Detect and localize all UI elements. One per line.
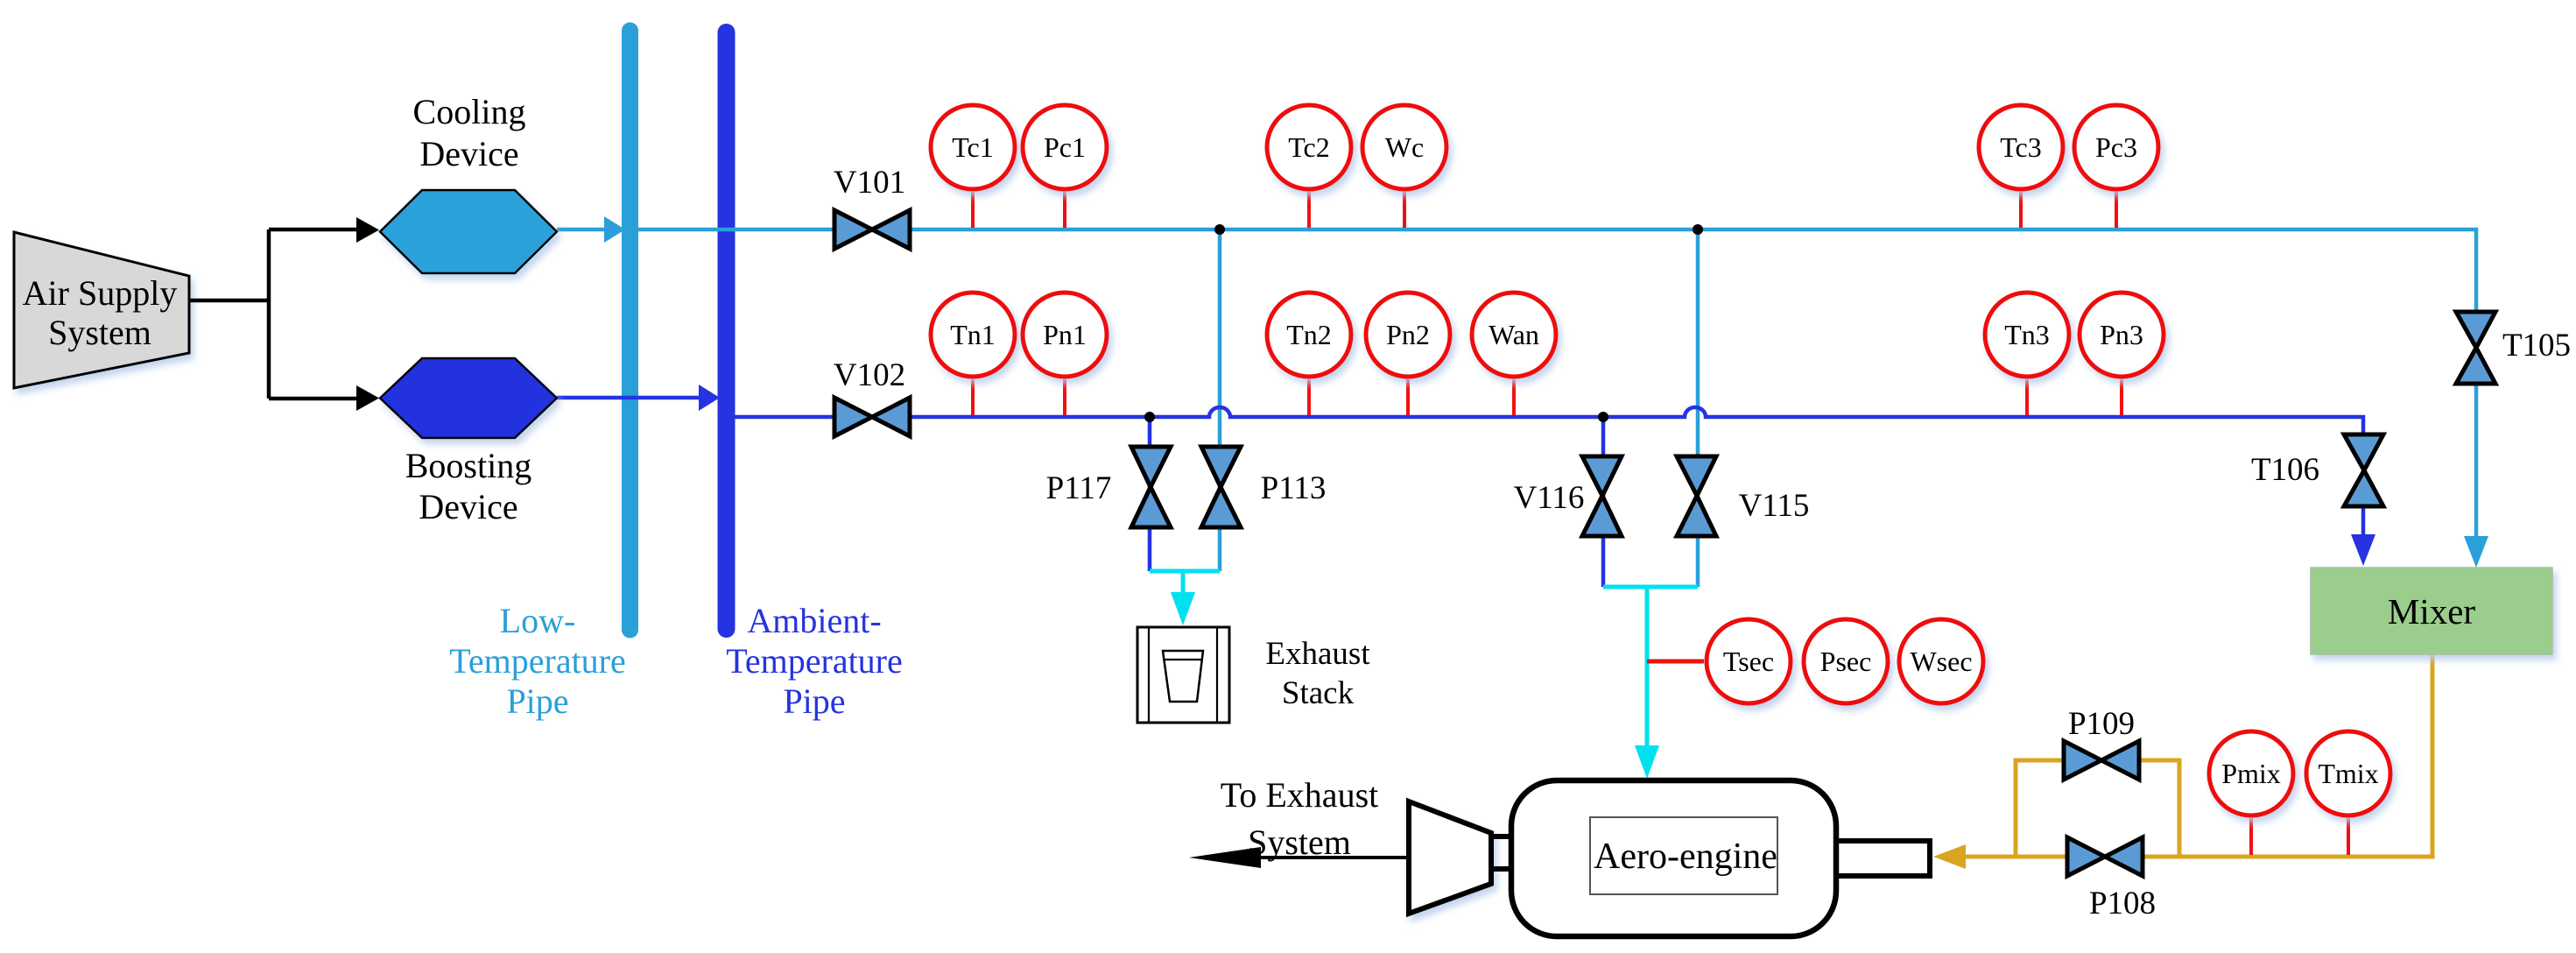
gauge Pn1: [1023, 293, 1107, 415]
svg-text:P117: P117: [1046, 470, 1112, 506]
ambient-temperature pipe bar: [726, 32, 903, 721]
gauge Wc: [1362, 105, 1446, 228]
svg-text:To Exhaust: To Exhaust: [1221, 775, 1379, 815]
svg-text:V101: V101: [834, 165, 905, 201]
wire: ambient pipe arrow into mixer: [2351, 534, 2375, 566]
svg-text:Tsec: Tsec: [1723, 646, 1774, 677]
wire: cyan collector to exhaust stack: [1150, 569, 1220, 592]
svg-text:T106: T106: [2251, 452, 2319, 488]
gauges row 4 (mixed flow): [2209, 731, 2390, 855]
gauge Psec: [1804, 619, 1888, 703]
gauges row 1 (cold pipe): [931, 105, 2158, 228]
wire: branch down to P117 valve (dark blue): [1148, 417, 1152, 571]
valve V116: [1582, 456, 1622, 536]
svg-text:Pipe: Pipe: [783, 681, 845, 721]
gauge Tmix: [2306, 731, 2390, 855]
gauge Wsec: [1899, 619, 1983, 703]
arrowhead to exhaust system: [1189, 847, 1261, 868]
svg-text:Air Supply: Air Supply: [23, 273, 178, 313]
valve V101: [834, 210, 910, 249]
wire: ambient feed arrowhead into ambient bar: [699, 385, 720, 411]
gauge Tc3: [1979, 105, 2063, 228]
gauges row 2 (ambient pipe): [931, 293, 2164, 415]
svg-text:Pn1: Pn1: [1043, 319, 1087, 350]
valve P109: [2064, 741, 2139, 780]
gauge Pn2: [1366, 293, 1450, 415]
gauge Wan: [1472, 293, 1556, 415]
wire: branch down to P113 valve (light blue): [1218, 229, 1222, 571]
exhaust stack: [1137, 627, 1370, 723]
svg-text:Device: Device: [419, 487, 517, 526]
gauge Pmix: [2209, 731, 2293, 855]
svg-text:V116: V116: [1514, 480, 1585, 516]
svg-text:Pn2: Pn2: [1386, 319, 1430, 350]
valve P108: [2067, 837, 2143, 876]
engine capsule: [1511, 780, 1836, 936]
svg-text:Pn3: Pn3: [2100, 319, 2143, 350]
aero-engine assembly: [1409, 780, 1930, 936]
wire: cold feed arrowhead into low-temp bar: [604, 216, 625, 243]
svg-text:System: System: [48, 313, 151, 352]
svg-text:Low-: Low-: [500, 601, 576, 640]
svg-text:Stack: Stack: [1282, 675, 1355, 711]
exhaust cone: [1409, 801, 1491, 914]
svg-text:V102: V102: [834, 357, 905, 393]
valve V115: [1677, 456, 1716, 536]
svg-text:Wsec: Wsec: [1910, 646, 1972, 677]
wire: branch down to V116 valve (dark blue): [1601, 417, 1606, 587]
gauge Tn3: [1985, 293, 2069, 415]
gauge Tn2: [1267, 293, 1351, 415]
svg-text:Pipe: Pipe: [506, 681, 568, 721]
valve T105: [2456, 312, 2495, 384]
svg-text:Device: Device: [419, 134, 518, 173]
svg-text:Tc1: Tc1: [952, 131, 994, 163]
nozzle: [1834, 841, 1930, 876]
svg-text:P109: P109: [2068, 706, 2135, 742]
wire: ambient main pipe with hops (dark blue): [735, 407, 2363, 534]
wire: cold pipe arrow into mixer: [2464, 536, 2488, 568]
svg-text:Boosting: Boosting: [405, 446, 531, 485]
mixer: [2311, 568, 2552, 654]
svg-text:Aero-engine: Aero-engine: [1594, 837, 1777, 877]
gauge Pc1: [1023, 105, 1107, 228]
svg-text:System: System: [1248, 822, 1351, 862]
valve T106: [2344, 434, 2383, 506]
wire: cyan collector into aero-engine: [1603, 585, 1698, 745]
wire: red tap to Tsec gauge: [1647, 660, 1704, 664]
svg-text:Tn3: Tn3: [2004, 319, 2050, 350]
svg-text:Tn2: Tn2: [1286, 319, 1332, 350]
valve P113: [1201, 447, 1241, 527]
wire: orange mixed-flow piping: [1966, 654, 2432, 857]
svg-text:Pc3: Pc3: [2095, 131, 2137, 163]
wire: orange arrowhead into engine nozzle: [1933, 844, 1966, 869]
engine label box: [1590, 817, 1777, 894]
gauges row 3 (secondary flow): [1707, 619, 1983, 703]
svg-text:Tc3: Tc3: [2000, 131, 2042, 163]
svg-text:Exhaust: Exhaust: [1265, 636, 1370, 672]
svg-text:Wan: Wan: [1489, 319, 1539, 350]
valve V102: [834, 398, 910, 436]
svg-text:Temperature: Temperature: [449, 641, 626, 681]
gauge Pc3: [2074, 105, 2158, 228]
gauge Tn1: [931, 293, 1015, 415]
cooling device: [380, 92, 557, 273]
svg-text:P108: P108: [2089, 886, 2156, 921]
valve P117: [1131, 447, 1171, 527]
svg-text:Pc1: Pc1: [1044, 131, 1086, 163]
svg-text:T105: T105: [2502, 328, 2571, 364]
svg-text:P113: P113: [1261, 470, 1327, 506]
wire: cold main pipe (light blue): [557, 229, 2476, 536]
neck: [1489, 834, 1514, 839]
wire: black supply connectors: [189, 229, 358, 399]
air supply system block: [14, 232, 189, 388]
low-temperature pipe bar: [449, 31, 630, 721]
gauge Pn3: [2080, 293, 2164, 415]
wire: black exhaust line: [1261, 856, 1411, 859]
svg-text:Ambient-: Ambient-: [747, 601, 881, 640]
arrowhead into cooling device: [356, 217, 379, 243]
arrowhead into boosting device: [356, 385, 379, 411]
svg-text:Temperature: Temperature: [726, 641, 903, 681]
gauge Tc1: [931, 105, 1015, 228]
gauge Tsec: [1707, 619, 1791, 703]
svg-text:Pmix: Pmix: [2221, 758, 2281, 789]
svg-text:Psec: Psec: [1820, 646, 1872, 677]
boosting device: [380, 358, 557, 526]
gauge Tc2: [1267, 105, 1351, 228]
wire: branch down to V115 valve (light blue): [1696, 229, 1700, 587]
svg-text:Mixer: Mixer: [2388, 591, 2476, 632]
svg-text:Tn1: Tn1: [950, 319, 996, 350]
wire: ambient feed from boosting device: [557, 396, 700, 400]
svg-text:Tmix: Tmix: [2318, 758, 2378, 789]
svg-text:Wc: Wc: [1385, 131, 1424, 163]
node junction dots: [1214, 224, 1225, 235]
svg-text:Cooling: Cooling: [413, 92, 526, 131]
svg-text:V115: V115: [1739, 488, 1810, 524]
svg-text:Tc2: Tc2: [1288, 131, 1330, 163]
